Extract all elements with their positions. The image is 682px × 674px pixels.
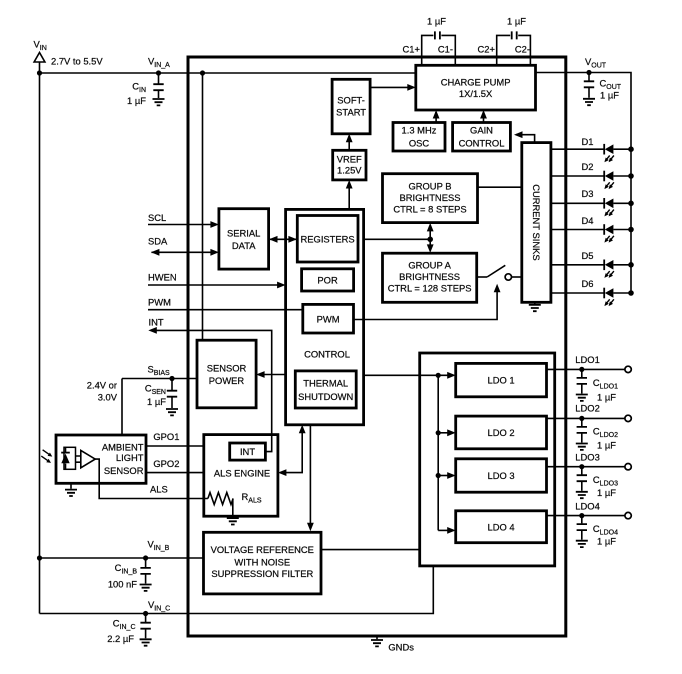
svg-text:VREF: VREF: [337, 154, 362, 165]
arrow into serial data: [269, 236, 278, 243]
svg-text:CONTROL: CONTROL: [459, 138, 505, 149]
node CIN_C tap: [143, 611, 148, 616]
svg-text:OSC: OSC: [409, 138, 430, 149]
arrow up into soft-start: [346, 134, 353, 143]
svg-text:PWM: PWM: [148, 297, 171, 308]
node D3 rail: [628, 201, 634, 207]
capacitor CLDO2: [577, 418, 587, 442]
wire SBIAS: [122, 378, 197, 380]
ground RALS: [227, 518, 239, 524]
resistor RALS: [208, 493, 233, 505]
svg-text:SHUTDOWN: SHUTDOWN: [298, 391, 353, 402]
svg-text:CIN_C: CIN_C: [113, 618, 136, 632]
arrow INT left: [148, 327, 157, 334]
svg-text:INT: INT: [240, 446, 255, 457]
svg-text:2.2 µF: 2.2 µF: [107, 633, 134, 644]
svg-text:BRIGHTNESS: BRIGHTNESS: [400, 192, 461, 203]
svg-text:POR: POR: [317, 275, 338, 286]
IC outline: [188, 57, 566, 636]
svg-text:VIN: VIN: [34, 39, 47, 53]
LDO 4 block: [456, 511, 547, 543]
svg-text:GROUP B: GROUP B: [408, 181, 451, 192]
capacitor CLDO3: [577, 467, 587, 491]
ground CSEN: [166, 409, 178, 415]
svg-text:CTRL = 128 STEPS: CTRL = 128 STEPS: [388, 283, 472, 294]
arrow up into vref: [346, 180, 353, 189]
switch contact circle: [505, 274, 511, 280]
arrow into sensor power: [256, 371, 265, 378]
svg-text:DATA: DATA: [232, 240, 256, 251]
gain control block: [453, 123, 511, 152]
svg-text:CLDO3: CLDO3: [593, 474, 618, 488]
arrow left into ALS engine: [278, 469, 287, 476]
LDO 2 block: [456, 416, 547, 449]
wire VIN left rail: [39, 62, 41, 614]
node LDO3 tap: [579, 464, 584, 469]
capacitor C2: [497, 31, 531, 65]
svg-text:GPO2: GPO2: [153, 458, 179, 469]
capacitor CIN_C: [140, 614, 150, 639]
sensor power block: [197, 340, 256, 408]
svg-text:1 µF: 1 µF: [427, 16, 446, 27]
svg-text:THERMAL: THERMAL: [303, 378, 348, 389]
registers block: [297, 216, 358, 263]
photodiode window: [64, 447, 76, 469]
svg-text:SBIAS: SBIAS: [148, 363, 171, 377]
svg-text:1 µF: 1 µF: [147, 396, 166, 407]
svg-text:LDO4: LDO4: [575, 500, 600, 511]
wire LDO4 feed: [438, 529, 453, 531]
svg-text:SENSOR: SENSOR: [207, 363, 247, 374]
svg-text:AMBIENT: AMBIENT: [102, 442, 144, 453]
node LDO2 feed: [436, 430, 441, 435]
ground CLDO1: [576, 395, 588, 401]
svg-text:C1-: C1-: [438, 44, 453, 55]
wire switch to current sinks: [512, 276, 522, 278]
arrow into LDO1: [447, 372, 456, 379]
arrow into LDO2: [447, 429, 456, 436]
wire LDO4 output: [547, 515, 625, 517]
svg-text:START: START: [336, 107, 366, 118]
wire VIN_C feed: [40, 566, 434, 614]
wire INT output: [151, 330, 272, 451]
svg-text:1 µF: 1 µF: [507, 16, 526, 27]
svg-text:1 µF: 1 µF: [597, 392, 616, 403]
capacitor CSEN: [167, 379, 177, 409]
ground CIN_C: [140, 639, 152, 645]
node CIN_B tap: [143, 555, 148, 560]
soft-start block: [332, 79, 370, 134]
svg-text:CIN_B: CIN_B: [115, 562, 138, 576]
arrow into gain control: [514, 131, 523, 138]
svg-text:VIN_C: VIN_C: [148, 599, 170, 613]
arrow into LDO4: [447, 527, 456, 534]
ground CIN: [153, 99, 165, 105]
wire LDO distribution rail: [437, 375, 439, 530]
capacitor CIN: [153, 73, 163, 98]
op-amp U1 (control block container): [286, 209, 364, 424]
svg-text:POWER: POWER: [209, 375, 245, 386]
node D4 rail: [628, 227, 634, 233]
svg-text:LDO 2: LDO 2: [488, 427, 515, 438]
current sinks block: [522, 143, 551, 303]
svg-text:D4: D4: [582, 215, 594, 226]
svg-text:INT: INT: [149, 317, 164, 328]
wire HWEN: [148, 284, 283, 286]
wire LDO2 feed: [438, 432, 453, 434]
vref block: [333, 150, 366, 180]
svg-text:LDO 1: LDO 1: [488, 375, 515, 386]
LED D1: [551, 144, 631, 162]
node D5 rail: [628, 262, 634, 268]
charge pump block: [416, 65, 536, 110]
svg-text:CIN: CIN: [132, 81, 146, 95]
svg-text:2.7V to 5.5V: 2.7V to 5.5V: [51, 56, 103, 67]
ground GNDs: [371, 636, 383, 646]
arrow down into noise filter: [307, 523, 314, 532]
svg-text:PWM: PWM: [317, 314, 340, 325]
node CIN tap: [156, 70, 161, 75]
node VIN junction: [37, 70, 42, 75]
arrow gain up: [480, 110, 487, 119]
node group arrow junction: [427, 237, 433, 243]
node LDO3 feed: [436, 473, 441, 478]
wire VIN_A internal feed: [202, 73, 204, 340]
svg-text:C2-: C2-: [515, 44, 530, 55]
arrow up at switch: [494, 284, 501, 293]
node LDO1 tap: [579, 367, 584, 372]
svg-text:LDO2: LDO2: [575, 403, 600, 414]
svg-text:3.0V: 3.0V: [98, 392, 118, 403]
LED D2: [551, 171, 631, 189]
svg-text:GPO1: GPO1: [153, 431, 179, 442]
svg-text:CLDO1: CLDO1: [593, 377, 618, 391]
node LDO4 tap: [579, 513, 584, 518]
capacitor COUT: [584, 73, 594, 98]
svg-text:D3: D3: [582, 188, 594, 199]
svg-text:SUPPRESSION FILTER: SUPPRESSION FILTER: [211, 568, 313, 579]
capacitor CLDO4: [577, 516, 587, 540]
svg-text:2.4V or: 2.4V or: [87, 380, 117, 391]
svg-text:LDO 4: LDO 4: [488, 522, 515, 533]
svg-text:1 µF: 1 µF: [600, 90, 619, 101]
wire GPO1: [146, 445, 204, 447]
ground current sinks: [534, 302, 536, 304]
LED D3: [551, 198, 631, 216]
node LDO2 tap: [579, 416, 584, 421]
POR block: [302, 269, 354, 291]
wire SCL: [148, 224, 217, 226]
svg-text:VOLTAGE REFERENCE: VOLTAGE REFERENCE: [211, 544, 314, 555]
svg-text:WITH NOISE: WITH NOISE: [234, 556, 290, 567]
node CSEN tap: [169, 376, 174, 381]
svg-text:VOUT: VOUT: [585, 56, 607, 70]
svg-text:GAIN: GAIN: [470, 125, 493, 136]
node LDO1 feed: [436, 373, 441, 378]
svg-text:D6: D6: [582, 278, 594, 289]
wire serial data to registers: [269, 238, 298, 240]
LDO 1 block: [456, 363, 547, 396]
svg-text:LDO3: LDO3: [575, 451, 600, 462]
ground sensor: [65, 483, 77, 496]
group B brightness block: [383, 174, 478, 223]
LDO 3 block: [456, 459, 547, 492]
wire control to sensor power: [258, 374, 286, 376]
PWM block: [303, 304, 354, 333]
terminal LDO3: [625, 464, 631, 470]
svg-text:C1+: C1+: [403, 44, 421, 55]
svg-text:CLDO2: CLDO2: [593, 426, 618, 440]
thermal shutdown block: [295, 371, 356, 408]
svg-text:HWEN: HWEN: [148, 272, 177, 283]
arrow into registers: [288, 236, 297, 243]
wire gain control to charge pump: [483, 112, 485, 123]
oscillator block: [393, 123, 445, 152]
wire SBIAS to sensor: [121, 379, 123, 436]
capacitor CIN_B: [140, 558, 150, 584]
svg-text:REGISTERS: REGISTERS: [301, 233, 355, 244]
svg-text:CURRENT SINKS: CURRENT SINKS: [531, 184, 542, 260]
terminal LDO1: [625, 366, 631, 372]
node D6 rail: [628, 290, 634, 296]
svg-text:BRIGHTNESS: BRIGHTNESS: [399, 271, 460, 282]
wire vref to soft-start: [348, 136, 350, 150]
wire group B to current sinks: [478, 186, 522, 188]
group A brightness block: [383, 253, 477, 302]
svg-text:SCL: SCL: [148, 212, 166, 223]
arrow up into control: [299, 425, 306, 434]
switch blade: [487, 265, 505, 277]
node VIN_B rail junction: [37, 555, 42, 560]
svg-text:1.3 MHz: 1.3 MHz: [402, 125, 437, 136]
svg-text:GROUP A: GROUP A: [408, 260, 451, 271]
VIN input terminal triangle: [34, 53, 45, 63]
svg-text:SENSOR: SENSOR: [104, 465, 144, 476]
wire GPO2: [146, 472, 204, 474]
svg-text:GNDs: GNDs: [388, 642, 414, 653]
wire osc to charge pump: [435, 112, 437, 123]
LDO container box: [420, 353, 555, 566]
arrow into charge pump: [407, 84, 416, 91]
svg-text:D5: D5: [582, 250, 594, 261]
svg-text:CTRL = 8 STEPS: CTRL = 8 STEPS: [393, 204, 466, 215]
svg-text:VIN_B: VIN_B: [148, 539, 170, 553]
wire LDO2 output: [547, 417, 625, 419]
terminal LDO4: [625, 512, 631, 518]
serial data block: [219, 209, 269, 269]
wire VIN top rail: [40, 72, 416, 74]
capacitor CLDO1: [577, 369, 587, 393]
voltage reference block: [204, 532, 322, 594]
INT block: [230, 443, 266, 460]
wire PWM to switch: [354, 287, 498, 320]
wire control to vref: [348, 183, 350, 210]
light arrows into sensor: [41, 450, 52, 463]
svg-text:CLDO4: CLDO4: [593, 523, 618, 537]
svg-text:C2+: C2+: [478, 44, 496, 55]
svg-text:D1: D1: [582, 136, 594, 147]
arrow HWEN into control: [277, 282, 286, 289]
wire control to noise filter: [309, 425, 311, 529]
svg-text:SOFT-: SOFT-: [337, 95, 365, 106]
wire group B to group A double arrow: [429, 228, 431, 250]
node VOUT tap: [586, 70, 591, 75]
svg-text:D2: D2: [582, 161, 594, 172]
arrow down into group A: [427, 244, 434, 253]
arrow SDA left: [151, 249, 160, 256]
ground CLDO2: [576, 444, 588, 450]
ground COUT: [583, 99, 595, 105]
capacitor C1: [422, 31, 456, 65]
wire control to brightness groups: [364, 238, 431, 240]
node D1 rail: [628, 146, 634, 152]
svg-text:LDO 3: LDO 3: [488, 470, 515, 481]
wire soft-start to charge pump: [370, 86, 413, 88]
wire ALS from sensor amp: [95, 459, 208, 498]
ALS engine container box: [204, 435, 278, 517]
arrow SDA right: [210, 249, 219, 256]
svg-text:100 nF: 100 nF: [108, 579, 137, 590]
wire RALS to ground: [232, 499, 234, 518]
node D2 rail: [628, 173, 634, 179]
svg-text:VIN_A: VIN_A: [148, 56, 170, 70]
wire current sinks to gain control: [516, 135, 535, 143]
svg-text:ALS: ALS: [150, 484, 168, 495]
svg-text:CONTROL: CONTROL: [304, 349, 350, 360]
wire LDO3 output: [547, 466, 625, 468]
arrow into LDO3: [447, 472, 456, 479]
svg-text:1X/1.5X: 1X/1.5X: [459, 88, 493, 99]
wire ALS engine to control: [280, 427, 302, 473]
wire group A to switch: [477, 276, 487, 278]
wire LDO1 output: [547, 368, 625, 370]
ground CLDO3: [576, 492, 588, 498]
arrow up into group B: [427, 223, 434, 232]
LED D6: [551, 288, 631, 306]
wire LDO3 feed: [438, 475, 453, 477]
ground CLDO4: [576, 541, 588, 547]
wire VIN_B feed: [40, 557, 204, 559]
op-amp sensor amplifier: [81, 450, 95, 467]
arrow SCL into serial data: [210, 221, 219, 228]
wire control to LDO1 feed: [364, 374, 454, 376]
LED D5: [551, 260, 631, 278]
photodiode to amp links: [76, 456, 81, 462]
wire noise filter output to LDO block: [321, 549, 420, 551]
ground CIN_B: [140, 585, 152, 591]
svg-text:1 µF: 1 µF: [597, 487, 616, 498]
svg-text:ALS ENGINE: ALS ENGINE: [214, 468, 270, 479]
svg-text:1 µF: 1 µF: [597, 536, 616, 547]
photodiode: [61, 447, 70, 469]
svg-text:1 µF: 1 µF: [597, 440, 616, 451]
svg-text:SDA: SDA: [148, 235, 168, 246]
svg-text:1.25V: 1.25V: [337, 165, 362, 176]
svg-text:CHARGE PUMP: CHARGE PUMP: [441, 77, 511, 88]
svg-text:SERIAL: SERIAL: [227, 228, 260, 239]
svg-text:CSEN: CSEN: [145, 383, 166, 397]
svg-text:LDO1: LDO1: [575, 354, 600, 365]
arrow osc up: [433, 110, 440, 119]
wire PWM input: [148, 309, 303, 311]
node VIN_A tap: [200, 70, 205, 75]
wire VOUT: [536, 73, 632, 294]
wire SDA: [152, 251, 217, 253]
LED D4: [551, 224, 631, 242]
svg-text:1 µF: 1 µF: [127, 95, 146, 106]
ambient light sensor container box: [56, 435, 146, 483]
terminal LDO2: [625, 415, 631, 421]
svg-text:LIGHT: LIGHT: [116, 452, 144, 463]
ground symbol current sinks: [529, 305, 541, 311]
